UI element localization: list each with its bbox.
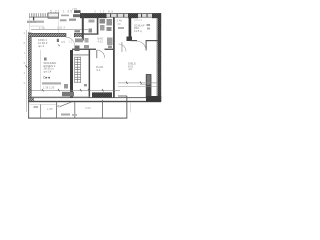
terrace ramp diagonal	[60, 102, 72, 107]
room label L1 (top-left room)	[38, 38, 48, 48]
vertical wall x=97	[97, 18, 99, 35]
bath door leaf	[95, 50, 98, 58]
chimney inner dark	[147, 85, 151, 97]
interior dim line 2	[30, 95, 90, 98]
interior dim line 1	[30, 89, 120, 92]
left vertical dim line	[25, 30, 28, 112]
stair top landing line	[74, 54, 89, 57]
scattered dim marks top-middle	[61, 15, 69, 17]
dim line above wall B	[31, 28, 88, 31]
right window glass	[138, 14, 153, 17]
terrace divider x=56	[55, 102, 58, 119]
staircase	[75, 57, 81, 83]
bottom-left text rows	[42, 82, 61, 84]
svg-text:4.21: 4.21	[98, 40, 104, 44]
vertical wall x=128 (bedroom)	[129, 18, 132, 39]
bath door arc	[97, 50, 105, 58]
bedroom label	[134, 23, 145, 33]
bath label mid	[98, 37, 104, 44]
top dim bold mark	[74, 10, 81, 13]
lower terrace left edge	[27, 101, 30, 119]
svg-text:13.5 q: 13.5 q	[134, 29, 142, 33]
chimney shaft right	[146, 75, 151, 98]
vertical wall x=70.5	[70, 50, 73, 98]
svg-text:2.85: 2.85	[72, 7, 78, 11]
left wall edge lines	[27, 33, 30, 102]
bath fixtures upper cluster	[100, 19, 106, 24]
bottom wall lower line	[28, 101, 161, 102]
left-top wall B	[28, 33, 66, 37]
left dim tick	[26, 66, 28, 68]
mid room label	[96, 65, 103, 72]
vertical wall x=82	[82, 14, 84, 41]
svg-text:3.13 85: 3.13 85	[94, 9, 113, 13]
fixtures right of bath label	[107, 38, 113, 46]
vertical wall x=113	[113, 18, 115, 98]
faint line above	[30, 25, 44, 28]
thin vertical line x=40.5	[39, 50, 41, 90]
marks below bath wall left	[89, 29, 93, 33]
top wall outer line	[80, 12, 161, 15]
terrace divider x=74	[73, 102, 76, 119]
wall B right pillar	[74, 33, 84, 37]
bedroom door arc	[137, 41, 147, 51]
terrace faint ledge line	[30, 103, 56, 106]
svg-text:1.85: 1.85	[47, 107, 53, 111]
svg-text:6.2: 6.2	[97, 68, 101, 72]
svg-text:1.38 2.26: 1.38 2.26	[43, 85, 55, 89]
terrace divider x=102	[101, 100, 104, 119]
svg-text:90: 90	[118, 22, 122, 26]
svg-text:qm 4: qm 4	[38, 44, 45, 48]
left wall	[28, 33, 32, 102]
terrace right edge	[125, 96, 128, 119]
terrace marks near bottom line	[61, 114, 70, 116]
top window glass	[107, 14, 129, 17]
bottom cluster (cabinet)	[62, 92, 74, 97]
bedroom wall y=40	[131, 40, 137, 41]
bedroom right small marks	[147, 24, 151, 26]
right window mullions	[141, 14, 142, 18]
dim ticks	[30, 89, 115, 91]
svg-text:4.5: 4.5	[61, 40, 65, 44]
small marks near 57,39	[57, 39, 59, 42]
bath wall y=34	[83, 33, 99, 34]
right wall inner line	[155, 18, 158, 101]
svg-text:2.01 4: 2.01 4	[57, 26, 65, 30]
top wall dark segment left	[80, 13, 107, 18]
door arcs x=118-126	[119, 44, 127, 52]
left dim stub lines	[140, 83, 146, 86]
balcony dim text row	[27, 21, 44, 23]
railing bottom line	[29, 16, 58, 19]
right hall dim lines	[118, 82, 157, 85]
label L2 dark row	[43, 75, 50, 79]
small mark 84,84	[84, 84, 87, 86]
top window lines	[107, 16, 129, 19]
svg-text:3.96: 3.96	[85, 106, 91, 110]
terrace bottom line	[28, 118, 127, 119]
svg-text:C■-■: C■-■	[43, 75, 50, 79]
svg-text:1.76: 1.76	[39, 26, 45, 30]
top window mullions	[110, 14, 111, 18]
svg-text:qm 14: qm 14	[44, 69, 52, 73]
diele label	[128, 62, 136, 72]
room label L2 (living)	[44, 58, 57, 74]
terrace divider x=40	[39, 104, 42, 119]
bottom wall hatch left bit	[29, 98, 34, 101]
right wall	[157, 13, 161, 101]
WC fixtures left of stair top	[75, 46, 80, 52]
balcony left edge faint	[28, 18, 31, 34]
vertical wall x=89	[89, 50, 91, 98]
small mark 44,58	[44, 58, 47, 61]
small blob above wall B right	[75, 30, 81, 32]
railing outline box	[48, 13, 59, 18]
top wall dark segment mid-right	[128, 13, 138, 18]
svg-text:2.38 90: 2.38 90	[27, 20, 37, 24]
bottom right corner dark	[146, 96, 161, 102]
bottom wall upper line	[28, 96, 161, 99]
top wall corner segment	[152, 13, 161, 18]
terrace door arc	[66, 37, 74, 45]
bottom dark band center	[92, 92, 112, 97]
junction blob	[127, 37, 133, 42]
bedroom door leaf	[146, 40, 147, 51]
balcony railing band A (top-left)	[30, 13, 57, 17]
door jambs in wall B	[65, 33, 68, 37]
railing start tick	[33, 17, 34, 20]
svg-text:4.0 2.1: 4.0 2.1	[134, 18, 142, 22]
faint extension line x=130	[129, 103, 131, 113]
balcony right edge faint	[57, 19, 60, 34]
right window lines	[138, 16, 153, 19]
terrace notch top	[118, 95, 127, 98]
hall wall y=49	[72, 49, 96, 50]
